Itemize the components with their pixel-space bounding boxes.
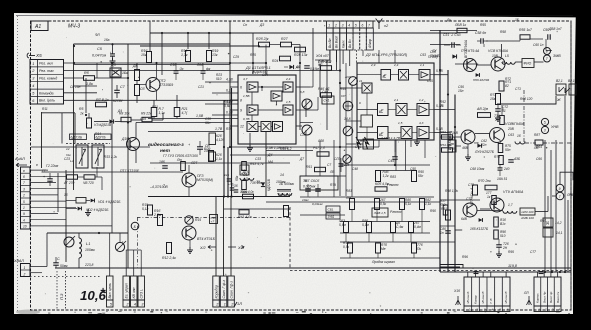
inductor L5 [502,62,506,64]
svg-text:1кб: 1кб [224,173,229,177]
resistor R77 [492,196,497,205]
svg-text:4,7В: 4,7В [226,78,234,82]
connector XS4 arrow [16,163,27,167]
strip1 box3 [131,276,138,300]
D1 pin wires left [230,86,238,88]
resistor R9 [142,117,152,121]
ground below D2 [416,139,418,142]
top right chain wire [486,40,520,42]
svg-text:Д1: Д1 [245,65,251,70]
strip3 gnd cap [474,271,479,273]
svg-text:2,4: 2,4 [285,77,291,81]
svg-text:АВ 2(м: АВ 2(м [476,107,489,111]
vertical x75 switch [74,113,76,144]
svg-text:10ас: 10ас [302,198,309,202]
inductor L6 [515,142,520,145]
svg-text:КГ940А: КГ940А [512,122,525,126]
wire y44 right ext [430,44,460,46]
ground right low [498,247,500,252]
diode N66 [476,73,480,77]
D2 row2 mixer [396,104,407,116]
svg-text:Е: Е [384,74,387,79]
svg-text:С58 6н: С58 6н [475,31,486,35]
D2 row3 mixer [401,127,412,139]
zener VD5 [261,182,265,186]
D1 opamp cell 2 [271,91,282,101]
svg-text:15м: 15м [490,97,497,101]
svg-text:Д7: Д7 [299,157,304,161]
capacitor C36 [234,189,239,191]
svg-text:Корпус: Корпус [536,293,540,303]
svg-text:3: 3 [23,187,25,191]
wire VT6 VT8 [475,133,490,135]
vertical x86 [85,78,87,113]
svg-text:R68 120: R68 120 [520,97,532,101]
svg-text:1,1к: 1,1к [159,111,166,115]
svg-text:С55: С55 [427,79,433,83]
capacitor C45 [305,188,311,190]
svg-text:чВ кан В: чВ кан В [481,292,485,304]
svg-text:2: 2 [215,303,218,307]
svg-text:Х1б: Х1б [453,289,460,293]
caps SB1 [326,206,340,212]
svg-text:ХВАЛ: ХВАЛ [13,259,24,263]
svg-text:0,005мк: 0,005мк [303,185,316,189]
resistor R6B [478,113,491,118]
wire D1 to D2 via [310,86,313,88]
svg-text:С60 1н: С60 1н [533,43,544,47]
svg-text:Дч: Дч [446,18,451,22]
D2 left box1 [362,83,372,93]
vertical x58 low [57,173,59,212]
svg-text:R8Т: R8Т [534,133,541,137]
D2 input wires [357,74,381,76]
svg-text:ЛМ: ЛМ [345,196,351,200]
vertical x327 [326,60,328,130]
box K26 b [209,152,216,161]
connector X2 boxes [327,28,334,50]
svg-text:С74: С74 [466,197,472,201]
scan smudge bottom left [16,310,40,315]
svg-text:5,1л: 5,1л [142,207,149,211]
jack circle 9 [556,184,564,192]
svg-text:2: 2 [334,23,337,27]
vertical x440 [439,30,441,272]
svg-text:1,8к: 1,8к [86,82,93,86]
ground C72 [497,115,499,118]
svg-text:1,3к: 1,3к [181,53,188,57]
svg-text:R7 8,1к: R7 8,1к [96,98,109,102]
svg-text:4,1В 4,1 4,7В: 4,1В 4,1 4,7В [381,136,400,140]
svg-text:1: 1 [23,206,25,210]
svg-text:L1: L1 [86,241,90,246]
svg-text:ПЛВ6): ПЛВ6) [428,55,438,59]
vertical x568 [567,200,569,272]
transistor VT6 [461,130,475,144]
svg-text:КВ чап: КВ чап [132,287,136,298]
dashed module boundary left [137,218,139,269]
svg-text:С2б: С2б [300,133,306,137]
resistor row2 b [367,222,372,233]
resistor R12 [167,243,172,254]
IC D1 outline [238,75,296,144]
resistor row2 a [344,222,349,233]
vertical x266 [265,45,267,64]
svg-text:5: 5 [355,23,357,27]
svg-text:Рег. вкл: Рег. вкл [39,62,53,66]
svg-text:1Бк: 1Бк [122,71,128,75]
bus y46b [140,45,260,47]
svg-text:Т. В: Т. В [489,299,493,304]
junction dots mid [339,146,341,148]
caps 1MD [326,213,340,219]
wire to jack [534,61,544,63]
svg-text:5,1к: 5,1к [405,202,412,206]
wire y113 [42,112,76,114]
resistor R1N [284,206,289,217]
resistor row3 a [348,243,353,253]
D2 E1 box [381,70,391,81]
resistor AGV [494,217,499,227]
svg-text:ВТ4 КТ01Б: ВТ4 КТ01Б [197,237,216,241]
connector X2 strip [327,21,374,28]
right lower wire y200 [440,199,480,201]
svg-text:R35: R35 [226,127,232,131]
strip5 divider 2 [540,277,542,312]
strip3 divider 3 [478,277,480,312]
svg-text:Лрядок игрзал: Лрядок игрзал [371,260,395,264]
svg-text:9: 9 [240,109,242,113]
wires XS4 rows [30,169,48,171]
svg-text:СЛЗ: СЛЗ [334,157,340,161]
transistor VT9 [490,198,504,212]
svg-text:1Б: 1Б [515,18,519,22]
resistor R8 [121,117,131,121]
wire VT5 VT7 [477,64,492,66]
wire trimmer [119,233,121,242]
svg-text:1,7: 1,7 [508,203,513,207]
svg-text:1,1к: 1,1к [425,202,432,206]
svg-text:0,5к: 0,5к [343,245,350,249]
dashed switch link [66,143,110,145]
transistor VT8 [490,128,505,143]
vertical x352 low [351,84,353,197]
svg-text:ДБ: ДБ [132,64,138,68]
svg-text:240: 240 [503,167,510,171]
junction dots top bus [161,32,163,34]
capacitor C41 box [322,96,334,104]
resistor row3 b [376,243,381,253]
capacitor C52 [451,42,453,48]
svg-text:Нбб КдЛ1Б: Нбб КдЛ1Б [473,78,489,82]
wire VT7 base [455,63,478,65]
svg-text:55с: 55с [418,174,424,178]
svg-text:3: 3 [342,23,344,27]
capacitor C59 [547,34,549,40]
capacitor C46b [315,188,321,190]
resistor R41 [239,210,249,214]
D2 internal wires [391,74,399,76]
ground diodes [87,210,89,213]
bottom rail wire 2 [290,270,571,272]
svg-text:К2ПМ: К2ПМ [113,99,122,103]
resistor row2 d [409,222,414,233]
svg-text:0,1бм: 0,1бм [310,67,320,71]
svg-text:R81: R81 [346,189,352,193]
wire jack ZMV [546,50,552,52]
D1 opamp cell 1 [247,82,258,92]
resistor R47 [317,152,329,156]
capacitor Ldd [201,70,206,72]
svg-text:R58: R58 [500,30,506,34]
wire corner strips [440,265,463,269]
wire y131 [148,131,224,133]
wire y30 right [430,30,477,32]
svg-text:ВГЗ КГ940А: ВГЗ КГ940А [464,40,468,58]
svg-text:15н: 15н [458,89,464,93]
svg-text:б5к: б5к [235,175,239,181]
wire y215 mid [300,214,345,216]
D1 opamp cell 4 [247,105,258,115]
box PB142 [543,218,553,227]
svg-text:R91: R91 [441,207,447,211]
svg-text:Дб: Дб [110,63,117,67]
svg-text:R25: R25 [250,53,256,57]
svg-text:R90: R90 [430,209,436,213]
svg-text:R9 22к: R9 22к [141,112,152,116]
svg-text:Кмлх: Кмлх [341,40,345,48]
resistor R17 [151,108,157,117]
title block A1 [31,21,48,31]
svg-text:4: 4 [492,308,494,312]
dotted edge y276 [30,276,100,278]
resistor row1 b [375,199,380,210]
diode VD1 [91,199,95,203]
strip3 divider 6 [501,277,503,312]
svg-text:4,12б: 4,12б [216,138,224,142]
svg-text:ѴСВ КТ940А: ѴСВ КТ940А [488,49,509,53]
resistor R73 [496,94,501,105]
svg-text:МТ015(М): МТ015(М) [197,178,213,182]
svg-text:С40: С40 [322,90,328,94]
svg-text:+: + [100,286,106,297]
svg-text:Ld: Ld [70,159,74,163]
vertical x334 [333,140,335,197]
svg-text:14,1: 14,1 [556,231,563,235]
transistor small [302,125,312,135]
svg-text:С71: С71 [515,87,521,91]
svg-text:С66: С66 [536,157,542,161]
svg-text:R29: R29 [204,147,210,151]
svg-text:R11: R11 [42,107,48,111]
svg-text:Вход Чр: Вход Чр [549,291,553,303]
svg-text:R88 1,2к: R88 1,2к [445,189,458,193]
resistor above VT8 [500,116,505,125]
strip5 divider 3 [547,277,549,312]
svg-text:2,5м: 2,5м [153,213,162,217]
transformer T1 [278,193,283,195]
svg-text:R27: R27 [281,37,289,41]
extra junction dots [73,45,75,47]
wires X2 strip down long [355,50,357,63]
resistor R9 column [135,85,140,96]
wire y147 centre [230,146,340,148]
resistor R75 [498,144,503,153]
svg-text:2,1: 2,1 [393,98,399,102]
D1 opamp cell 5 [283,105,293,115]
svg-text:VD2 ҂ КД521Б: VD2 ҂ КД521Б [86,208,109,212]
svg-text:Рлонос: Рлонос [390,210,402,214]
svg-text:в: в [23,169,25,173]
svg-text:R55 1к7: R55 1к7 [519,28,533,32]
right lower cluster resistor2 [473,185,478,195]
jack box FS22 [569,84,576,95]
svg-text:1к: 1к [487,195,491,199]
svg-text:1б: 1б [517,134,521,138]
svg-text:Д2 КП4-УР6 (ТРА150Л): Д2 КП4-УР6 (ТРА150Л) [365,53,408,57]
svg-text:Г2 22мх: Г2 22мх [46,164,59,168]
svg-text:1,7В: 1,7В [215,127,223,131]
resistor R67 [499,156,504,165]
svg-text:С34: С34 [262,73,268,77]
svg-text:R5: R5 [79,107,84,111]
svg-text:КТ315Б9: КТ315Б9 [159,83,173,87]
svg-text:1,2: 1,2 [419,98,424,102]
svg-text:91: 91 [502,109,506,113]
strip5 divider 4 [553,277,555,312]
svg-text:АЗБ: АЗБ [513,157,520,161]
strip1 box1 [107,276,114,300]
right lower wire y226 [440,225,455,227]
strip5 gnd cap [539,271,544,273]
vertical x556 [555,140,557,272]
wire jack LMV [535,211,548,213]
jack circle 7 [544,55,551,62]
capacitor C11 [53,262,59,264]
D2 left box2 [361,115,373,127]
arrow jack down [497,96,556,104]
vertical x253 [252,33,254,74]
capacitor C72 [495,108,501,110]
wire y118 [148,118,238,120]
svg-text:С38: С38 [318,139,324,143]
wire y147 [31,146,150,148]
svg-text:Х5: Х5 [35,53,42,58]
wire y163b [230,162,290,164]
wire top bus [74,43,231,45]
svg-text:6: 6 [362,23,364,27]
wire VT1 base [137,84,146,86]
wire bundle X2 left a [329,50,331,63]
svg-text:11: 11 [359,79,363,83]
svg-text:R41 4,0к: R41 4,0к [238,215,252,219]
svg-text:С77: С77 [530,250,536,254]
wire y170 below D2 [378,170,414,172]
wire X5 row3 [64,77,85,79]
svg-text:Ж: Ж [556,97,561,102]
vertical x448 [447,70,449,272]
resistor R45 [376,171,381,182]
svg-text:20В: 20В [507,127,515,131]
wire y63 ext [230,62,266,64]
switch label S2 [95,134,112,140]
svg-text:С31 ⏚ С53: С31 ⏚ С53 [443,33,461,37]
left wire y86 [74,85,97,87]
wire VT7b base [455,229,462,231]
trimmer circle mid [343,155,351,163]
D2 E3 box [378,127,389,139]
resistor row3 c [412,243,417,253]
svg-text:ѴТ9: ѴТ9 [503,190,510,194]
wire y150 [266,150,313,152]
inductor DL1 [240,178,245,180]
strip3 outline [464,277,510,306]
svg-text:Х9Т: Х9Т [237,246,246,250]
svg-text:Вкл. цепь: Вкл. цепь [108,283,112,299]
switch box S1 [76,145,88,168]
transistor below D2 [343,126,353,136]
wire y163 [150,162,230,164]
node circle B [131,222,139,230]
svg-text:R83: R83 [390,175,396,179]
svg-text:R2б 2(к: R2б 2(к [256,37,269,41]
title column dotted line [65,271,67,310]
capacitor C36b [230,187,235,189]
resistor R53 [442,135,453,139]
svg-text:R95: R95 [508,250,514,254]
svg-text:С68 10мк: С68 10мк [470,167,485,171]
resistor row1 d [420,199,425,210]
resistor chain U60 [67,175,78,179]
wire x137 vertical [136,63,138,70]
svg-text:1,5В: 1,5В [243,94,249,98]
wire y221 mid [340,221,430,223]
svg-text:ЛЛ: ЛЛ [523,291,529,295]
svg-text:0,4м: 0,4м [414,225,422,229]
vertical x228 [227,147,229,197]
resistor R7 8.1k [96,102,107,107]
resistor R42 [321,93,332,98]
D1 pin wires right [296,86,310,88]
wires X6AL [30,266,47,268]
box K26 a [209,133,216,145]
phase trimmer [115,242,124,251]
resistor R40 [321,66,332,71]
capacitor SLZ [339,163,344,165]
svg-text:С48: С48 [352,167,358,171]
svg-text:Рег. тас: Рег. тас [39,69,54,73]
svg-text:С50: С50 [410,167,416,171]
svg-text:9: 9 [359,101,361,105]
wire y130 [136,122,230,124]
wire VT7b L7 [477,210,503,212]
D2 right pin wires [434,74,448,76]
svg-text:14: 14 [280,173,284,177]
resistor R26 [259,42,270,47]
connector X2 wide box [366,28,373,50]
diode VD8 [452,54,456,58]
svg-text:С73: С73 [468,183,474,187]
D1 mixer cell 6 [247,122,258,132]
svg-text:1: 1 [24,266,26,270]
svg-text:АМБ 100: АМБ 100 [520,216,534,220]
resistor R27 [281,42,292,47]
svg-text:4,7п: 4,7п [243,177,250,181]
svg-text:С19: С19 [140,117,146,121]
resistor R98 box [520,208,535,215]
svg-text:Д4: Д4 [117,109,122,113]
box LAV [372,208,388,217]
